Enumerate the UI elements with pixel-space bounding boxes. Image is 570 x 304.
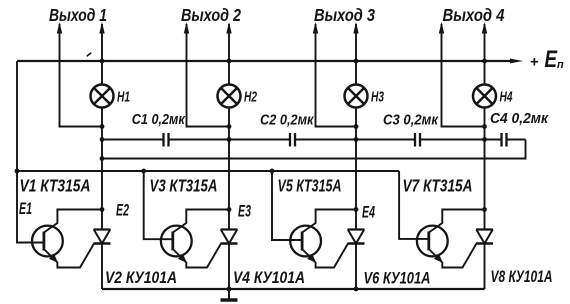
junction cap line 1 [100, 137, 105, 142]
transistor V7 [417, 226, 448, 257]
svg-text:H4: H4 [500, 90, 513, 106]
junction anode 4 [482, 207, 487, 212]
junction cathode rail stage 3 [354, 287, 359, 292]
junction cap line 4 [482, 137, 487, 142]
junction rail stage 4 [482, 59, 487, 64]
junction cap line 3 [354, 137, 359, 142]
wire collector V5 to anode 3 [302, 210, 356, 233]
thyristor V4 [221, 230, 238, 244]
lamp H4 [473, 85, 496, 108]
svg-text:V1 КТ315А: V1 КТ315А [20, 176, 91, 196]
junction rail stage 1 [100, 59, 105, 64]
junction wrap stage 1 [100, 156, 105, 161]
svg-text:Выход 3: Выход 3 [314, 5, 375, 25]
wire cathode V4 [228, 244, 230, 290]
junction anode 2 [227, 207, 232, 212]
wire lamp column 2 top [228, 24, 230, 85]
svg-text:Выход 4: Выход 4 [443, 5, 505, 25]
wire cap line segment 1 [102, 139, 163, 141]
svg-text:V4 КУ101А: V4 КУ101А [233, 269, 305, 287]
junction cap line 2 [227, 137, 232, 142]
svg-text:V8 КУ101А: V8 КУ101А [491, 268, 553, 286]
arrow output 3 [313, 22, 318, 34]
arrow emitter V3 [178, 254, 187, 263]
wire emitter V7 to gate V8 [429, 244, 477, 268]
junction output tap 4 [482, 124, 487, 129]
svg-text:C4 0,2мк: C4 0,2мк [490, 111, 549, 127]
svg-text:H2: H2 [244, 90, 257, 106]
lamp H3 [345, 85, 368, 108]
transistor V3 [161, 226, 192, 257]
svg-text:V6 КУ101А: V6 КУ101А [364, 270, 431, 288]
svg-text:V2 КУ101А: V2 КУ101А [105, 269, 177, 287]
svg-text:E3: E3 [238, 203, 251, 221]
wire emitter V3 to gate V4 [173, 244, 221, 268]
capacitor C4 [502, 133, 507, 147]
svg-text:E4: E4 [362, 204, 375, 222]
wire +Ep rail [17, 60, 512, 62]
svg-text:V5 КТ315А: V5 КТ315А [278, 176, 342, 196]
lamp H2 [218, 85, 241, 108]
svg-text:V3 КТ315А: V3 КТ315А [150, 176, 218, 196]
thyristor V2 [94, 230, 111, 244]
wire anode column 2 [228, 108, 230, 230]
wire cathode rail [102, 288, 485, 290]
wire collector V3 to anode 2 [173, 210, 229, 233]
wire anode column 3 [355, 108, 357, 230]
svg-text:E: E [545, 46, 558, 73]
wire base feed 3 [272, 171, 302, 240]
junction anode 3 [354, 207, 359, 212]
wire cathode V8 [484, 244, 486, 290]
junction output tap 1 [100, 124, 105, 129]
arrow emitter V5 [307, 254, 316, 263]
capacitor C1 [164, 133, 169, 147]
svg-text:H1: H1 [117, 90, 130, 106]
wire base feed 2 [144, 171, 173, 239]
wire anode column 4 [484, 108, 486, 230]
wire cathode V2 [101, 244, 103, 290]
wire emitter V5 to gate V6 [302, 244, 348, 268]
wire collector V1 to anode 1 [44, 210, 102, 233]
svg-text:H3: H3 [371, 90, 384, 106]
wire cap line segment 5 [508, 139, 526, 141]
arrow emitter V7 [434, 254, 443, 263]
wire cap line segment 2 [170, 139, 290, 141]
arrow +Ep rail end [510, 59, 523, 64]
wire base feed 4 [399, 171, 429, 239]
svg-text:E1: E1 [19, 200, 32, 218]
wire output 1 tap [60, 24, 103, 127]
wire stray tick [87, 53, 91, 56]
junction output tap 2 [227, 124, 232, 129]
arrow lamp column 3 [353, 22, 358, 34]
wire output 3 tap [316, 24, 357, 127]
thyristor V6 [348, 230, 365, 244]
svg-text:Выход 2: Выход 2 [181, 5, 241, 25]
wire collector V7 to anode 4 [429, 210, 485, 233]
svg-text:E2: E2 [116, 202, 129, 220]
svg-text:Выход 1: Выход 1 [49, 5, 107, 25]
wire lamp column 1 top [101, 24, 103, 85]
wire cathode V6 [355, 244, 357, 290]
wire cap line segment 3 [296, 139, 414, 141]
lamp H1 [91, 85, 114, 108]
svg-text:+: + [530, 54, 539, 71]
arrow lamp column 1 [99, 22, 104, 34]
svg-text:C3 0,2мк: C3 0,2мк [383, 113, 439, 129]
ground [221, 289, 238, 300]
svg-text:C1 0,2мк: C1 0,2мк [132, 112, 186, 128]
junction rail stage 3 [354, 59, 359, 64]
wire emitter V1 to gate V2 [44, 244, 94, 268]
junction base bus 1 [15, 169, 20, 174]
wire lamp column 3 top [355, 24, 357, 85]
junction anode 1 [100, 207, 105, 212]
wire base bus [17, 170, 399, 172]
svg-text:V7 КТ315А: V7 КТ315А [403, 176, 473, 196]
wire anode column 1 [101, 108, 103, 230]
capacitor C2 [290, 133, 295, 147]
junction cathode rail stage 2 [227, 287, 232, 292]
arrow output 1 [57, 22, 62, 34]
capacitor C3 [415, 133, 420, 147]
junction base bus 2 [141, 169, 146, 174]
wire output 2 tap [187, 24, 230, 127]
wire base feed 1 (left border) [17, 61, 44, 243]
wire lamp column 4 top [484, 24, 486, 85]
wire C4 wrap to stage 1 [102, 140, 526, 159]
junction output tap 3 [354, 124, 359, 129]
arrow output 4 [439, 22, 444, 34]
wire output 4 tap [442, 24, 485, 127]
junction rail stage 2 [227, 59, 232, 64]
thyristor V8 [476, 230, 493, 244]
arrow lamp column 2 [226, 22, 231, 34]
transistor V5 [290, 226, 321, 257]
svg-text:C2 0,2мк: C2 0,2мк [260, 113, 314, 129]
arrow emitter V1 [49, 254, 58, 263]
transistor V1 [32, 226, 63, 257]
svg-text:п: п [557, 59, 564, 71]
wire cap line segment 4 [421, 139, 501, 141]
junction base bus 3 [270, 169, 275, 174]
arrow output 2 [184, 22, 189, 34]
arrow lamp column 4 [482, 22, 487, 34]
